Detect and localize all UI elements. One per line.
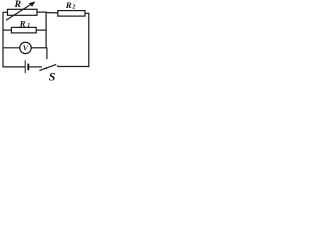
wire R1 branch right [36,29,46,31]
svg-text:R: R [65,0,72,10]
wire top-left to rheostat [3,11,8,13]
wire switch drop vertical [46,48,48,60]
battery long plate [24,60,26,73]
svg-text:V: V [23,44,29,53]
svg-text:R: R [14,0,22,10]
wire R1 branch left [3,29,12,31]
wire left vertical [2,12,4,67]
voltmeter V [20,42,31,53]
rheostat arrow [6,4,32,20]
resistor R1 [11,27,36,33]
wire R2 right [85,12,89,14]
wire bottom-left to battery [3,66,26,68]
switch contact dot [45,67,47,69]
wire battery to switch [28,66,42,68]
resistor R (rheostat box) [8,9,38,15]
wire voltmeter left [3,47,20,49]
svg-text:S: S [49,69,56,82]
wire rheostat right [37,11,47,13]
switch S lever [39,64,56,70]
battery short plate [27,64,29,71]
svg-text:R: R [19,18,26,28]
wire middle vertical [45,12,47,49]
resistor R2 [58,11,85,17]
svg-text:2: 2 [71,4,75,10]
svg-text:1: 1 [27,23,30,29]
wire bottom-right [57,65,89,68]
wire voltmeter right [31,47,47,49]
wire top to R2 [46,12,58,14]
wire right vertical [88,13,90,67]
